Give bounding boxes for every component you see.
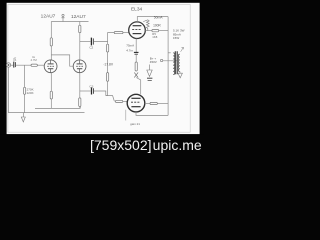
resistor R5 — [107, 73, 109, 82]
wire R5 down — [106, 81, 108, 95]
transformer T1 primary winding — [173, 53, 175, 75]
OPT B+ terminal dot — [160, 59, 162, 61]
wire V2 plate to rail — [79, 22, 81, 26]
input jack J1 — [6, 63, 10, 67]
V2 cathode resistor R9 — [79, 98, 81, 107]
bias divider: resistor R4 — [107, 42, 109, 45]
resistor R12 — [135, 62, 137, 71]
ground arrow (B+ ref) — [147, 65, 153, 81]
V1 cathode resistor R8 — [50, 73, 52, 92]
wire V2 cathode to C3 — [80, 90, 91, 92]
right vertical bus — [167, 17, 169, 116]
secondary ground — [178, 72, 182, 78]
X junction mark — [134, 73, 138, 78]
wire jack to C1 — [11, 64, 14, 66]
watermark band — [0, 134, 204, 154]
secondary top arrow — [181, 47, 184, 52]
wire to lower tube — [136, 78, 141, 95]
pentode EL34 — [129, 22, 146, 39]
black frame background — [0, 0, 204, 154]
wire R7 to ground bus — [24, 94, 26, 112]
svg-text:4.7M: 4.7M — [30, 58, 37, 62]
wire B+ terminal to OPT — [163, 60, 177, 62]
V3 cathode to right bus — [136, 112, 168, 116]
wire C4 to R12 — [135, 54, 137, 62]
wire R3 to EL34 — [123, 32, 129, 34]
ground symbol — [21, 113, 25, 122]
resistor R7 (grid leak) — [24, 87, 26, 94]
wire V1 plate to V2 grid — [51, 55, 73, 66]
V3 plate resistor R13 (right) — [145, 103, 150, 105]
resistor R3 (EL34 grid stopper) — [114, 32, 123, 34]
plate wire to OPT: resistor R11 — [145, 30, 152, 32]
svg-text:gain 21: gain 21 — [130, 122, 140, 126]
svg-text:EL34: EL34 — [131, 6, 143, 12]
svg-text:450V: 450V — [150, 60, 157, 64]
wire R1 to V1 plate — [50, 46, 52, 60]
svg-text:220K: 220K — [27, 91, 34, 95]
svg-text:C2: C2 — [89, 46, 93, 50]
capacitor C1 — [14, 62, 16, 68]
V2 cathode node — [79, 73, 81, 91]
OPT primary feed stub — [168, 52, 171, 54]
wire C2 to EL34 grid node — [94, 33, 114, 42]
white schematic page — [7, 3, 200, 134]
svg-text:12AU7: 12AU7 — [71, 14, 86, 20]
wire R2 to V2 plate — [79, 33, 81, 61]
wire R10 to lower tube — [123, 100, 128, 102]
wire C1 to grid resistor — [16, 64, 31, 66]
triode V1 — [44, 60, 57, 73]
wire jack ground — [8, 67, 10, 112]
svg-text:100R: 100R — [153, 24, 161, 28]
svg-text:4.7m: 4.7m — [126, 49, 133, 53]
resistor R2 (V2 plate load) — [79, 25, 81, 33]
ground bus B — [8, 112, 84, 114]
svg-text:12AU7: 12AU7 — [41, 13, 56, 19]
capacitor C2 — [91, 38, 93, 46]
EL34 cathode chain — [135, 39, 137, 53]
B+ terminal — [61, 14, 64, 21]
wire: input node down (R7 leak) — [24, 65, 26, 87]
wire R6 to V1 grid — [37, 64, 44, 66]
svg-text:[759x502] upic.me: [759x502] upic.me — [90, 137, 202, 153]
transformer T1 secondary winding — [178, 54, 179, 71]
triode V2 — [73, 60, 86, 73]
wire R4 to R5 — [107, 52, 109, 73]
B+ rail — [51, 21, 88, 23]
grid aux line — [125, 110, 127, 121]
screen resistor (vertical) — [143, 20, 149, 31]
EL34 plate stub up — [137, 17, 168, 22]
resistor R1 (V1 plate load) — [50, 38, 52, 46]
ground bus A (cathodes) — [35, 107, 80, 109]
svg-text:50mA: 50mA — [154, 16, 164, 20]
resistor R6 (series grid) — [31, 64, 37, 66]
schematic border — [8, 4, 190, 132]
capacitor C3 — [92, 88, 94, 95]
transformer core — [175, 51, 177, 74]
wire C3 to lower grid network — [94, 91, 114, 101]
svg-text:15W: 15W — [173, 36, 179, 40]
power tube V3 (lower) — [127, 94, 145, 112]
wire V1 plate to rail — [50, 22, 52, 38]
wire V2 plate to C2 — [80, 41, 91, 43]
svg-text:75mA: 75mA — [126, 43, 134, 47]
svg-text:-17.8V: -17.8V — [103, 62, 114, 66]
svg-text:1K8: 1K8 — [152, 35, 157, 39]
resistor R10 (lower tube grid) — [115, 100, 122, 102]
capacitor C4 (horizontal plates) — [134, 52, 139, 54]
